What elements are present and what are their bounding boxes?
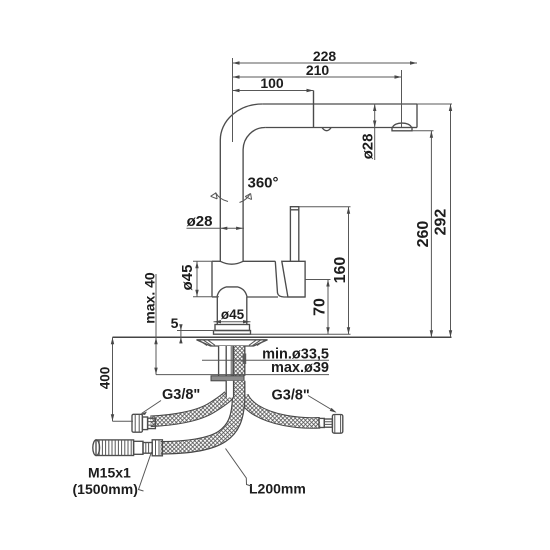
aerator dome: [393, 123, 412, 127]
dim 228: [233, 48, 418, 65]
dim phi28 at riser: [187, 213, 245, 230]
washer hatch ticks: [199, 340, 265, 345]
riser pipe left edge: [219, 140, 221, 261]
spout bottom edge right segment: [412, 127, 417, 129]
svg-text:max. 40: max. 40: [142, 272, 158, 324]
spout end cap: [416, 104, 418, 128]
dim phi45 neck: [214, 307, 251, 323]
svg-text:G3/8": G3/8": [272, 388, 310, 404]
svg-text:L200mm: L200mm: [249, 481, 306, 497]
dim 292: [417, 104, 452, 337]
dim 400: [98, 337, 134, 421]
dim max 40 deck thickness: [142, 272, 330, 374]
aerator outlet rectangle: [392, 128, 412, 131]
dim 160: [299, 207, 351, 335]
riser pipe right edge: [242, 150, 244, 262]
svg-text:160: 160: [332, 257, 349, 284]
label G3/8 right: [272, 388, 337, 413]
handle rod: [290, 207, 298, 262]
dim 100: [233, 75, 314, 92]
svg-text:400: 400: [98, 367, 113, 390]
shank lower section: [226, 381, 245, 398]
dim 260: [412, 131, 434, 337]
spout inner curve: [243, 127, 265, 149]
dim 5 base ring: [171, 315, 215, 344]
svg-text:ø28: ø28: [360, 134, 377, 160]
right G3/8 hose fitting: [319, 415, 343, 434]
mounting nut: [211, 376, 244, 381]
dim 210: [233, 62, 402, 127]
countertop line: [113, 336, 452, 338]
spout bottom edge: [265, 127, 392, 129]
svg-text:5: 5: [171, 315, 179, 331]
dim 70: [306, 280, 331, 335]
dim phi28 vertical at spout end: [360, 104, 377, 161]
note min phi33,5: [202, 347, 329, 363]
corrugated hose end: [96, 440, 134, 456]
svg-text:(1500mm): (1500mm): [73, 481, 138, 497]
label G3/8 left: [141, 387, 201, 415]
mounting washer: [197, 340, 268, 346]
extension line ring bottom for 70/160: [214, 333, 351, 335]
M15x1 pull-out fitting: [93, 440, 163, 456]
body cylinder: [212, 261, 305, 297]
label L200mm: [226, 449, 306, 497]
label M15x1 (1500mm): [73, 452, 152, 497]
svg-text:max.ø39: max.ø39: [271, 360, 329, 376]
neck shoulder arch: [217, 287, 247, 297]
pipe joint tick: [313, 91, 315, 128]
left G3/8 hose fitting: [132, 414, 155, 432]
dim phi45 body left: [179, 261, 219, 297]
left supply hose: [151, 396, 229, 422]
spout top edge: [262, 103, 417, 105]
svg-text:210: 210: [306, 62, 330, 78]
neck below body: [216, 297, 218, 325]
shank upper section: [219, 346, 245, 376]
riser axis extension line: [232, 58, 234, 142]
svg-text:260: 260: [415, 221, 432, 248]
svg-text:G3/8": G3/8": [162, 387, 200, 403]
svg-text:70: 70: [312, 298, 329, 316]
svg-text:100: 100: [260, 75, 284, 91]
handle lever block: [282, 261, 305, 297]
svg-text:ø45: ø45: [179, 265, 196, 291]
base ring lower plate: [214, 331, 251, 335]
svg-text:360°: 360°: [248, 175, 279, 192]
hose coupling inside shank: [243, 354, 247, 365]
svg-text:292: 292: [433, 209, 450, 236]
svg-text:M15x1: M15x1: [88, 465, 131, 481]
spout outer curve: [220, 104, 262, 140]
base ring upper: [215, 325, 250, 331]
pull-out spray hose: [161, 396, 239, 448]
360 degree swivel label: [211, 175, 279, 203]
small bump under pipe: [322, 128, 331, 131]
svg-text:ø45: ø45: [221, 307, 245, 322]
right supply hose: [243, 396, 320, 423]
svg-text:ø28: ø28: [187, 213, 213, 230]
